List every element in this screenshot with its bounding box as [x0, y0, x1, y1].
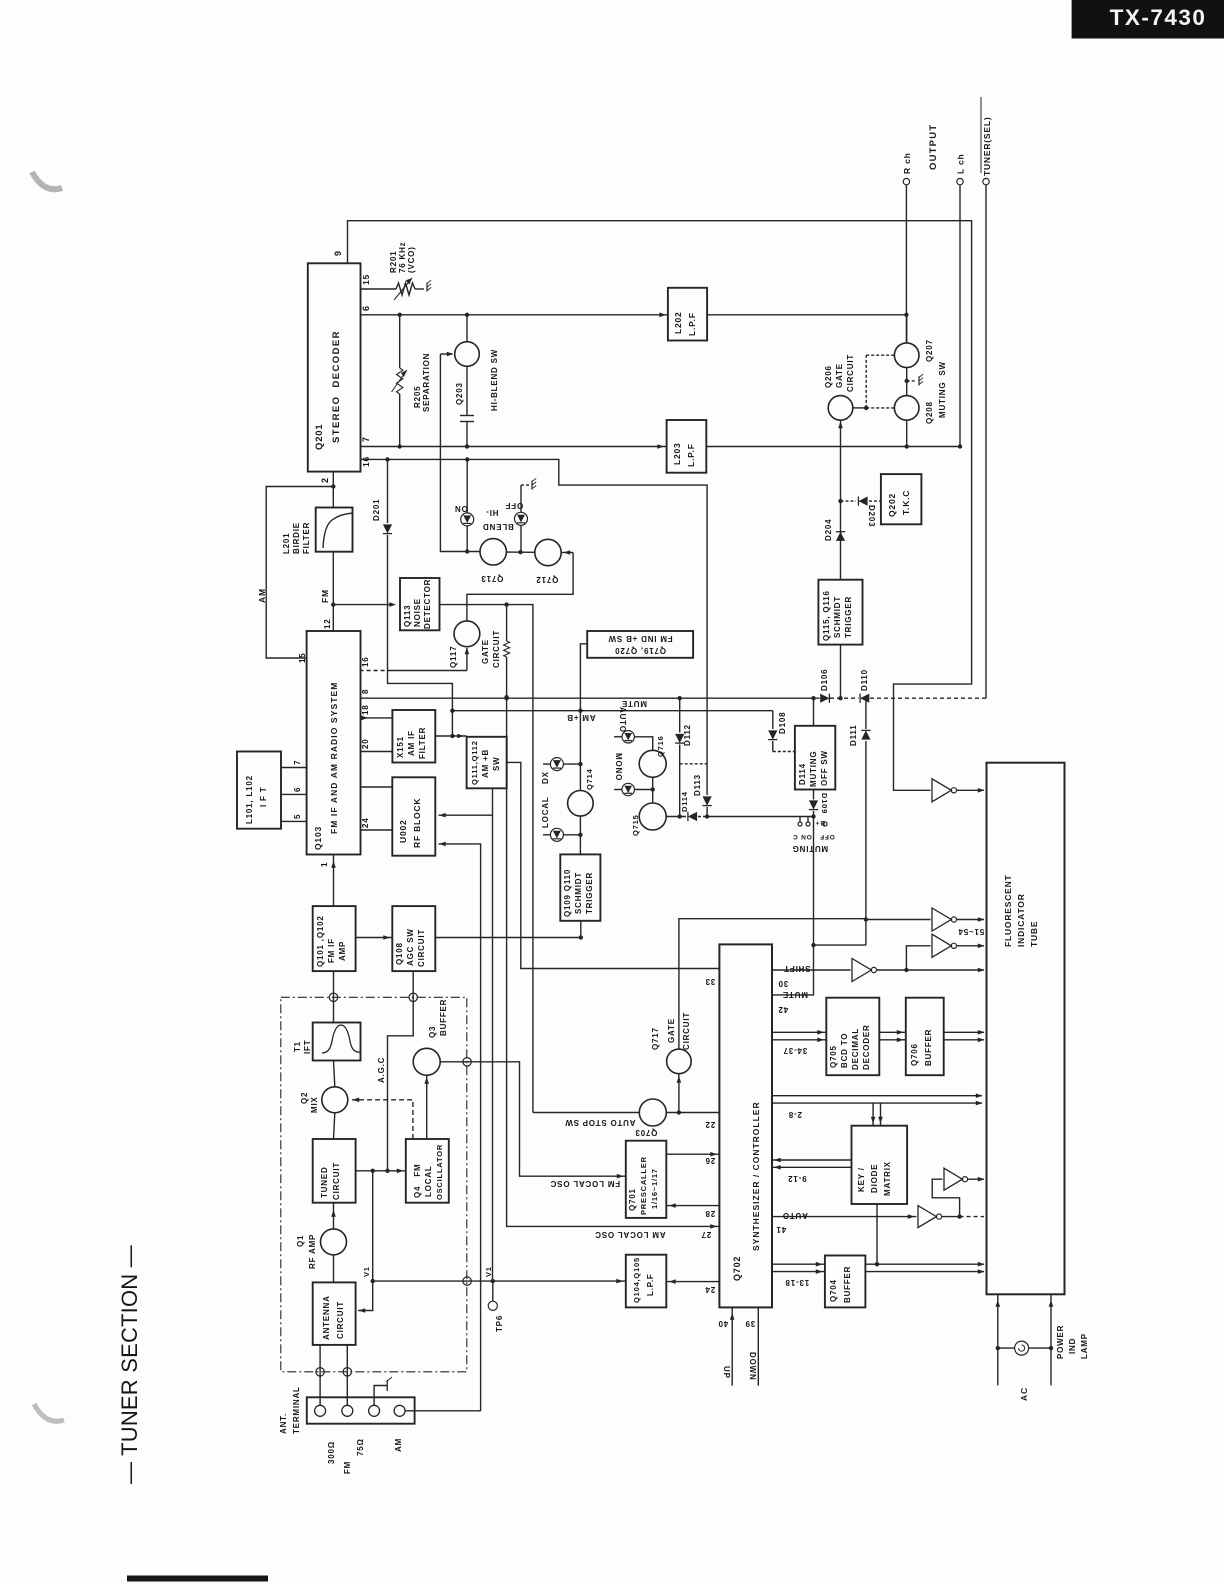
- wire TUNED to Q4 local osc: [356, 1170, 406, 1172]
- wire Q713-Q712: [506, 551, 534, 553]
- svg-text:Q715: Q715: [631, 814, 640, 836]
- svg-text:15: 15: [361, 274, 371, 285]
- svg-text:MATRIX: MATRIX: [883, 1161, 892, 1196]
- wire pin16 Q201 route to D113: [361, 459, 708, 795]
- svg-text:SYNTHESIZER / CONTROLLER: SYNTHESIZER / CONTROLLER: [751, 1101, 761, 1251]
- muting on/off switch marks: [799, 817, 801, 823]
- wire arrow into U002 right edge: [439, 814, 493, 816]
- svg-text:DX: DX: [541, 771, 550, 784]
- svg-text:(VCO): (VCO): [407, 246, 416, 273]
- svg-text:AUTO STOP SW: AUTO STOP SW: [565, 1118, 636, 1127]
- wire Q2 to TUNED CIRCUIT: [334, 1113, 335, 1139]
- transistor Q2 MIX: [322, 1087, 348, 1113]
- box Q704 BUFFER: [825, 1256, 866, 1308]
- bus Q706 to tube: [944, 1031, 984, 1033]
- svg-text:42: 42: [778, 1005, 789, 1014]
- svg-text:MUTING: MUTING: [809, 751, 818, 787]
- svg-text:1/16~1/17: 1/16~1/17: [650, 1168, 659, 1209]
- box D114 MUTING OFF SW: [795, 726, 835, 790]
- svg-text:UP: UP: [722, 1366, 731, 1379]
- wire MUTE vertical to synthesizer pin42: [813, 698, 815, 726]
- terminal R ch: [903, 178, 909, 184]
- svg-text:CIRCUIT: CIRCUIT: [492, 630, 501, 668]
- svg-text:9: 9: [333, 250, 343, 256]
- svg-text:D106: D106: [820, 669, 829, 691]
- svg-text:BUFFER: BUFFER: [924, 1029, 933, 1066]
- box U002 RF BLOCK: [392, 777, 435, 855]
- svg-text:12: 12: [323, 619, 332, 630]
- svg-text:HI-: HI-: [485, 508, 498, 517]
- svg-text:BUFFER: BUFFER: [439, 999, 448, 1036]
- wires antenna circuit to terminals: [319, 1345, 321, 1405]
- diode D106: [820, 694, 829, 703]
- svg-text:Q719, Q720: Q719, Q720: [614, 646, 666, 655]
- svg-text:TUNED: TUNED: [320, 1166, 329, 1198]
- svg-text:ANTENNA: ANTENNA: [322, 1295, 331, 1340]
- svg-text:FM: FM: [343, 1461, 352, 1474]
- svg-text:CIRCUIT: CIRCUIT: [682, 1012, 691, 1050]
- transistor Q717 gate circuit: [667, 1049, 692, 1074]
- wire D111 foot to pin42 vertical: [814, 944, 866, 946]
- svg-text:Q206: Q206: [824, 365, 833, 388]
- svg-text:33: 33: [705, 977, 716, 986]
- svg-text:CIRCUIT: CIRCUIT: [846, 354, 855, 392]
- wire up to AUTO upper inverter: [932, 1179, 959, 1216]
- svg-text:STEREO DECODER: STEREO DECODER: [331, 330, 342, 443]
- wire Q717 bottom to pin22 line: [678, 1074, 680, 1113]
- box Q719 Q720 FM IND +B SW: [587, 631, 693, 658]
- diode D109: [813, 790, 815, 800]
- wire Q208 bottom to L-ch line: [906, 420, 908, 446]
- wire L201 to Q103 pin12, FM branch: [332, 552, 334, 631]
- svg-text:1: 1: [320, 862, 329, 867]
- svg-text:FM IF: FM IF: [327, 938, 336, 963]
- bottom page bar: [127, 1576, 268, 1582]
- svg-text:L.P.F: L.P.F: [646, 1273, 655, 1296]
- svg-text:FM IF AND AM RADIO SYSTEM: FM IF AND AM RADIO SYSTEM: [329, 682, 339, 834]
- svg-text:TX-7430: TX-7430: [1110, 5, 1207, 30]
- transistor Q714: [568, 791, 594, 817]
- wire Q113 out to vertical bus x533: [440, 605, 533, 1113]
- svg-text:L101, L102: L101, L102: [245, 775, 254, 824]
- lamp POWER IND LAMP: [998, 1347, 1015, 1349]
- diode D204: [836, 532, 845, 541]
- svg-text:NOISE: NOISE: [413, 598, 422, 627]
- svg-text:SCHMIDT: SCHMIDT: [833, 596, 842, 638]
- terminal L ch: [957, 178, 963, 184]
- wire D112 to D113 dashed: [680, 763, 707, 765]
- wire L202 output to R-ch node: [707, 314, 906, 316]
- wire pin2 and AM branch: [332, 472, 334, 508]
- wire schmidt to mute line: [840, 645, 842, 699]
- svg-text:28: 28: [705, 1209, 716, 1218]
- scan mark bottom-left: [34, 1404, 64, 1421]
- svg-text:Q4 FM: Q4 FM: [413, 1164, 422, 1199]
- svg-text:D114: D114: [798, 763, 807, 785]
- IC Q103 FM IF AND AM RADIO SYSTEM: [307, 631, 361, 855]
- wire pin9 to top bus: [348, 221, 972, 791]
- svg-text:Q202: Q202: [887, 493, 897, 517]
- svg-text:V1: V1: [484, 1266, 493, 1277]
- svg-text:FILTER: FILTER: [302, 522, 311, 554]
- svg-text:16: 16: [361, 657, 370, 668]
- svg-text:D112: D112: [683, 724, 692, 746]
- svg-text:Q703: Q703: [635, 1128, 658, 1137]
- svg-text:R201: R201: [389, 251, 398, 273]
- svg-text:AMP: AMP: [338, 941, 347, 961]
- svg-text:FM: FM: [320, 589, 330, 603]
- svg-text:T.K.C: T.K.C: [901, 490, 911, 515]
- box L202 L.P.F: [668, 288, 707, 341]
- svg-text:D110: D110: [860, 669, 869, 691]
- IC Q702 SYNTHESIZER / CONTROLLER: [719, 944, 772, 1307]
- svg-text:MUTING SW: MUTING SW: [938, 361, 947, 418]
- title block TX-7430: [1072, 0, 1224, 39]
- svg-text:Q108: Q108: [395, 942, 404, 965]
- svg-text:Q716: Q716: [656, 735, 665, 757]
- svg-text:16: 16: [361, 456, 371, 467]
- svg-text:2: 2: [320, 477, 330, 483]
- svg-text:SHIFT: SHIFT: [783, 964, 810, 973]
- svg-text:7: 7: [293, 760, 302, 765]
- svg-text:9-12: 9-12: [787, 1174, 806, 1183]
- wire key matrix bottom to 13-18 bus: [876, 1204, 878, 1264]
- indicator LED LOCAL: [543, 834, 550, 836]
- svg-text:R ch: R ch: [902, 152, 912, 174]
- transistor Q712: [535, 539, 561, 565]
- svg-text:GATE: GATE: [835, 363, 844, 388]
- svg-text:GATE: GATE: [481, 639, 490, 664]
- bus 2-8: [772, 1095, 982, 1097]
- svg-text:TERMINAL: TERMINAL: [292, 1386, 301, 1434]
- svg-text:Q203: Q203: [455, 382, 464, 405]
- AM +B line: [452, 710, 772, 712]
- svg-text:I F T: I F T: [259, 787, 268, 807]
- svg-text:AUTO: AUTO: [782, 1211, 808, 1220]
- svg-text:30: 30: [778, 979, 789, 988]
- svg-text:MUTE: MUTE: [782, 990, 808, 999]
- wire Q103 pin16 to Q117: [360, 670, 388, 672]
- terminal TUNER(SEL): [983, 178, 989, 184]
- svg-text:R205: R205: [413, 386, 422, 408]
- diode D113: [703, 796, 712, 805]
- svg-text:B+: B+: [815, 819, 825, 826]
- diode D110: [860, 694, 869, 703]
- wires DX/LOCAL chain: [563, 763, 580, 765]
- svg-text:AM LOCAL OSC: AM LOCAL OSC: [594, 1230, 665, 1239]
- svg-text:D201: D201: [372, 499, 381, 521]
- svg-text:TUNER(SEL): TUNER(SEL): [982, 117, 992, 176]
- wire pin18 to X151: [361, 717, 393, 719]
- capacitor below Q203: [466, 366, 468, 415]
- box ANTENNA CIRCUIT: [313, 1282, 356, 1345]
- svg-text:L.P.F: L.P.F: [687, 312, 697, 336]
- wire L203 output to L-ch node: [706, 446, 960, 448]
- svg-text:BLEND: BLEND: [482, 522, 514, 531]
- wire X151 to Q111 box: [435, 735, 466, 737]
- svg-text:ON: ON: [454, 504, 468, 513]
- wire terminal4 AM antenna: [405, 1410, 481, 1412]
- bus Q705 to Q706: [879, 1031, 906, 1033]
- box Q108 AGC SW CIRCUIT: [392, 906, 435, 971]
- wire AGC line: [388, 971, 414, 1171]
- svg-text:OFF: OFF: [505, 501, 523, 510]
- box Q706 BUFFER: [906, 998, 944, 1075]
- svg-text:IFT: IFT: [303, 1040, 312, 1054]
- svg-text:DECIMAL: DECIMAL: [851, 1028, 860, 1070]
- wire prescaler pin28: [666, 1205, 719, 1207]
- svg-text:Q713: Q713: [481, 574, 504, 583]
- box ANT TERMINAL: [307, 1397, 415, 1423]
- svg-text:L.P.F: L.P.F: [686, 443, 696, 467]
- svg-text:HI-BLEND SW: HI-BLEND SW: [490, 349, 499, 411]
- wire tube supply left: [997, 1294, 999, 1385]
- IC Q201 STEREO DECODER: [308, 263, 361, 471]
- box Q109 Q110 SCHMIDT TRIGGER: [560, 854, 600, 920]
- svg-text:40: 40: [718, 1319, 729, 1328]
- svg-text:D203: D203: [867, 505, 876, 527]
- box L203 L.P.F: [667, 420, 707, 473]
- wire B+ vertical from Q111/Q112: [492, 788, 494, 1281]
- svg-text:D108: D108: [778, 712, 787, 734]
- svg-text:RF AMP: RF AMP: [308, 1234, 317, 1269]
- svg-text:Q2: Q2: [300, 1092, 309, 1104]
- svg-text:Q712: Q712: [536, 575, 559, 584]
- svg-text:Q705: Q705: [829, 1045, 838, 1068]
- box Q101 Q102 FM IF AMP: [313, 906, 356, 971]
- diode D108: [772, 711, 774, 729]
- svg-text:D109: D109: [820, 793, 829, 814]
- svg-text:DOWN: DOWN: [748, 1352, 757, 1381]
- svg-text:51~54: 51~54: [958, 927, 984, 936]
- scan mark top-left: [32, 172, 62, 189]
- wire Q206 to Q207/Q208: [853, 407, 866, 409]
- svg-text:300Ω: 300Ω: [327, 1441, 336, 1464]
- box KEY / DIODE MATRIX: [852, 1126, 908, 1204]
- svg-text:PRESCALLER: PRESCALLER: [639, 1156, 648, 1215]
- svg-text:76 KHz: 76 KHz: [398, 242, 407, 273]
- wire inverter out: [957, 789, 985, 791]
- inverter mid (to tube): [906, 946, 930, 970]
- svg-text:Q3: Q3: [428, 1026, 437, 1038]
- svg-text:A.G.C: A.G.C: [377, 1057, 386, 1083]
- wire Q717 top to inverter row: [679, 919, 866, 1049]
- svg-text:AM IF: AM IF: [407, 730, 416, 756]
- svg-text:22: 22: [705, 1120, 716, 1129]
- svg-text:5: 5: [293, 814, 302, 819]
- transistor Q715: [639, 803, 666, 830]
- wire FM IF AMP down to T1: [333, 971, 335, 1022]
- svg-text:Q706: Q706: [910, 1043, 919, 1066]
- svg-text:AM: AM: [394, 1438, 403, 1452]
- svg-text:D114: D114: [680, 791, 689, 812]
- svg-text:Q1: Q1: [296, 1235, 305, 1247]
- svg-text:POWER: POWER: [1056, 1325, 1065, 1359]
- svg-text:CIRCUIT: CIRCUIT: [336, 1301, 345, 1339]
- svg-text:SCHMIDT: SCHMIDT: [574, 872, 583, 914]
- svg-text:FILTER: FILTER: [418, 727, 427, 759]
- svg-text:BUFFER: BUFFER: [843, 1266, 852, 1303]
- svg-text:Q704: Q704: [829, 1279, 838, 1302]
- wire prescaler pin26: [666, 1153, 719, 1155]
- box X151 AM IF FILTER: [392, 710, 435, 763]
- diode D111: [865, 698, 867, 729]
- svg-text:DETECTOR: DETECTOR: [423, 579, 432, 629]
- wire V1 supply line: [373, 1280, 626, 1282]
- indicator LED MONO: [614, 789, 622, 791]
- svg-text:TUBE: TUBE: [1029, 921, 1039, 947]
- wire Q703 left to bus: [533, 1112, 639, 1114]
- svg-text:TRIGGER: TRIGGER: [585, 872, 594, 914]
- svg-text:TP6: TP6: [495, 1315, 504, 1332]
- wires AUTO/MONO to Q716/Q715: [634, 737, 652, 751]
- wire Q4 to Q3: [426, 1075, 428, 1139]
- pin 39 wire DOWN: [757, 1307, 759, 1385]
- svg-text:Q101 ,Q102: Q101 ,Q102: [316, 915, 325, 967]
- svg-text:U002: U002: [398, 819, 408, 843]
- wire AM antenna line to RF BLOCK: [439, 844, 481, 1411]
- svg-text:TRIGGER: TRIGGER: [844, 596, 853, 638]
- wire pin24 to U002: [361, 829, 393, 831]
- svg-text:GATE: GATE: [667, 1018, 676, 1043]
- transistor Q703 auto stop sw: [639, 1099, 666, 1126]
- wire FM line to Q113: [333, 604, 394, 606]
- bus 34-37 to BCD decoder: [772, 1031, 826, 1033]
- svg-text:AC: AC: [1019, 1387, 1029, 1401]
- indicator LED hi-blend ON: [466, 459, 468, 513]
- svg-text:L203: L203: [672, 442, 682, 465]
- ground at R201: [426, 283, 428, 292]
- svg-text:6: 6: [293, 787, 302, 792]
- transistor Q716: [639, 750, 666, 777]
- svg-text:Q702: Q702: [732, 1256, 742, 1281]
- svg-text:SW: SW: [492, 757, 501, 772]
- bus 13-18 to Q704 buffer: [772, 1263, 825, 1265]
- wire Q203 input from Q713 node: [440, 354, 480, 552]
- box Q104 Q105 L.P.F: [626, 1255, 667, 1308]
- transistor Q713: [480, 539, 506, 565]
- svg-text:LOCAL: LOCAL: [424, 1165, 433, 1197]
- box Q113 NOISE DETECTOR: [400, 578, 440, 630]
- svg-text:BIRDIE: BIRDIE: [292, 522, 301, 554]
- box Q111 Q112 AM +B SW: [467, 737, 507, 789]
- svg-text:CIRCUIT: CIRCUIT: [417, 929, 426, 967]
- svg-text:AM +B: AM +B: [481, 749, 490, 778]
- resistor R205 SEPARATION: [399, 315, 401, 368]
- svg-text:KEY /: KEY /: [857, 1167, 866, 1192]
- svg-text:24: 24: [705, 1285, 716, 1294]
- bus 9-12 key matrix to synthesizer: [772, 1159, 852, 1161]
- diode D201: [387, 459, 389, 523]
- wire pin20 to X151: [361, 751, 393, 753]
- wire terminal3 chassis ground: [374, 1386, 387, 1406]
- svg-text:75Ω: 75Ω: [356, 1438, 365, 1456]
- wire AM LOCAL OSC down to synthesizer pin27: [507, 697, 720, 1226]
- inverter 51~54: [932, 908, 951, 931]
- svg-text:39: 39: [745, 1319, 756, 1328]
- svg-text:L ch: L ch: [956, 153, 966, 174]
- wire FM IF AMP to AGC SW: [356, 937, 393, 939]
- svg-text:Q109 Q110: Q109 Q110: [563, 869, 572, 917]
- bus Q704 to tube: [865, 1263, 984, 1265]
- svg-text:D111: D111: [849, 725, 858, 746]
- inverter SHIFT: [852, 959, 871, 982]
- wires IFT to Q103: [281, 767, 307, 769]
- svg-text:18: 18: [361, 705, 370, 716]
- svg-text:LAMP: LAMP: [1080, 1333, 1089, 1359]
- box Q115 Q116 SCHMIDT TRIGGER: [818, 580, 862, 645]
- resistor R201 76KHz VCO: [396, 283, 415, 295]
- svg-text:27: 27: [701, 1230, 712, 1239]
- svg-text:20: 20: [361, 739, 370, 750]
- svg-text:BCD TO: BCD TO: [840, 1033, 849, 1068]
- inverter to indicator tube (top): [932, 779, 951, 802]
- svg-text:Q113: Q113: [403, 605, 412, 627]
- display FLUORESCENT INDICATOR TUBE: [987, 763, 1065, 1295]
- box Q705 BCD TO DECIMAL DECODER: [826, 998, 879, 1075]
- indicator LED DX: [543, 763, 550, 765]
- wire TUNED to Q1: [333, 1203, 335, 1229]
- wire Q207 top to R-ch node: [906, 315, 908, 343]
- svg-text:FM IND +B SW: FM IND +B SW: [608, 634, 673, 643]
- svg-text:Q117: Q117: [449, 646, 458, 668]
- wire tube supply right: [1050, 1294, 1052, 1385]
- svg-text:OFF SW: OFF SW: [820, 750, 829, 786]
- bus branch down to key matrix: [872, 1103, 874, 1126]
- wire Q715 output line: [666, 816, 686, 818]
- svg-text:Q208: Q208: [925, 401, 934, 424]
- svg-text:V1: V1: [362, 1266, 371, 1277]
- svg-text:DIODE: DIODE: [870, 1164, 879, 1193]
- pin 40 wire UP: [731, 1307, 733, 1385]
- indicator LED hi-blend OFF: [515, 512, 528, 525]
- box L201 BIRDIE FILTER: [316, 508, 353, 552]
- svg-text:AM: AM: [257, 588, 267, 603]
- svg-text:MIX: MIX: [310, 1096, 319, 1113]
- svg-text:Q201: Q201: [314, 424, 325, 450]
- wire Q1 to ANTENNA CIRCUIT: [333, 1255, 335, 1283]
- wire Q111 right to synthesizer pin33: [507, 762, 720, 968]
- svg-text:13-18: 13-18: [785, 1278, 809, 1287]
- svg-text:ANT.: ANT.: [279, 1413, 288, 1434]
- box Q202 T.K.C: [881, 474, 922, 524]
- wire pin7 line to L203: [361, 446, 667, 448]
- box TUNED CIRCUIT: [313, 1139, 356, 1203]
- svg-text:FLUORESCENT: FLUORESCENT: [1003, 874, 1013, 947]
- svg-text:8: 8: [361, 689, 370, 694]
- diode D114 inline: [688, 812, 697, 821]
- wire Q3 output / FM LOCAL OSC: [440, 1062, 626, 1176]
- wire SHIFT line pin30: [772, 969, 851, 971]
- svg-text:FM LOCAL OSC: FM LOCAL OSC: [550, 1179, 620, 1188]
- wire D204 chain vertical: [840, 420, 842, 580]
- diode D203 and TKC link: [838, 499, 842, 503]
- svg-text:CIRCUIT: CIRCUIT: [332, 1162, 341, 1200]
- transistor Q206 GATE CIRCUIT: [828, 396, 853, 421]
- svg-text:Q717: Q717: [651, 1027, 660, 1050]
- svg-text:Q115, Q116: Q115, Q116: [822, 590, 831, 641]
- svg-text:Q207: Q207: [925, 339, 934, 362]
- svg-text:LOCAL: LOCAL: [541, 796, 550, 828]
- svg-text:Q103: Q103: [313, 826, 323, 850]
- svg-text:AUTO: AUTO: [618, 707, 627, 733]
- svg-text:7: 7: [361, 436, 371, 442]
- inverter AUTO upper: [944, 1168, 962, 1190]
- wire pin15: [361, 288, 397, 290]
- svg-text:Q111,Q112: Q111,Q112: [470, 740, 479, 785]
- svg-text:6: 6: [361, 305, 371, 311]
- svg-text:34-37: 34-37: [783, 1046, 807, 1055]
